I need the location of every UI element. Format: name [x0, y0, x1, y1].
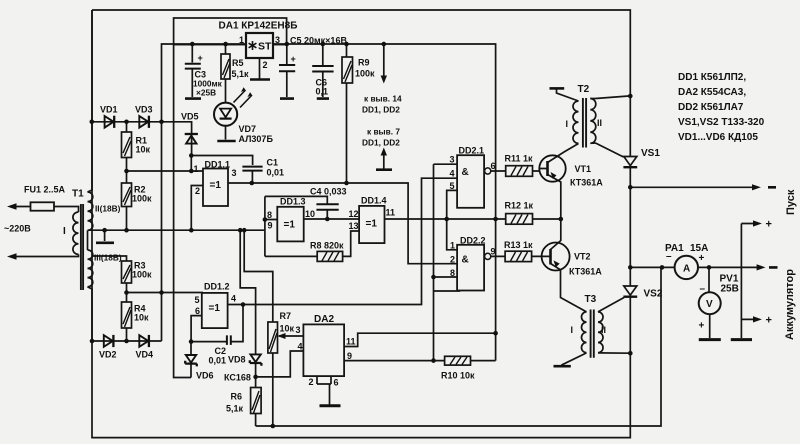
svg-text:DD1.4: DD1.4 — [361, 196, 387, 206]
svg-text:VD3: VD3 — [135, 105, 153, 115]
svg-text:DA2: DA2 — [314, 314, 334, 325]
svg-text:8: 8 — [267, 210, 272, 220]
svg-text:5,1к: 5,1к — [226, 404, 244, 414]
svg-text:VD1...VD6 КД105: VD1...VD6 КД105 — [678, 132, 758, 143]
svg-text:6: 6 — [334, 378, 339, 388]
svg-text:+: + — [766, 315, 772, 327]
svg-text:25В: 25В — [721, 284, 739, 295]
svg-text:VD7: VD7 — [239, 124, 257, 134]
svg-text:DD1.2: DD1.2 — [204, 282, 230, 292]
svg-text:C5 20мк×16B: C5 20мк×16B — [290, 36, 347, 46]
svg-text:10к: 10к — [280, 324, 295, 334]
svg-text:VD2: VD2 — [99, 350, 117, 360]
svg-text:DD2.2: DD2.2 — [460, 236, 486, 246]
svg-text:10: 10 — [305, 209, 315, 219]
svg-text:DD1.3: DD1.3 — [280, 197, 306, 207]
svg-text:R12 1к: R12 1к — [505, 201, 534, 211]
svg-text:2: 2 — [309, 377, 314, 387]
svg-text:VT2: VT2 — [574, 252, 591, 262]
svg-text:VD8: VD8 — [228, 355, 246, 365]
svg-text:C2: C2 — [215, 346, 227, 356]
svg-text:3: 3 — [296, 325, 301, 335]
svg-text:6: 6 — [195, 306, 200, 316]
svg-text:13: 13 — [349, 221, 359, 231]
svg-text:+: + — [699, 253, 705, 264]
svg-text:2: 2 — [263, 60, 268, 70]
svg-text:II: II — [601, 325, 606, 335]
svg-text:=1: =1 — [366, 219, 378, 230]
svg-text:4: 4 — [298, 342, 303, 352]
svg-text:к выв. 14: к выв. 14 — [364, 94, 402, 104]
svg-text:~220B: ~220B — [4, 224, 31, 234]
svg-text:4: 4 — [450, 169, 455, 179]
svg-text:3: 3 — [275, 35, 280, 45]
svg-text:R5: R5 — [232, 58, 244, 68]
svg-text:+: + — [291, 54, 296, 64]
svg-text:DD2.1: DD2.1 — [459, 146, 485, 156]
svg-text:4: 4 — [231, 294, 236, 304]
svg-text:10к: 10к — [136, 145, 151, 155]
svg-text:V: V — [706, 299, 713, 310]
svg-text:VD5: VD5 — [181, 112, 199, 122]
svg-text:FU1 2..5A: FU1 2..5A — [24, 185, 66, 195]
svg-text:100к: 100к — [132, 270, 152, 280]
svg-text:6: 6 — [491, 161, 496, 171]
svg-text:5: 5 — [450, 181, 455, 191]
svg-text:VD4: VD4 — [136, 350, 154, 360]
svg-text:VD6: VD6 — [196, 371, 214, 381]
svg-text:11: 11 — [386, 208, 396, 218]
svg-text:II(18B): II(18B) — [95, 204, 121, 214]
svg-text:×25B: ×25B — [196, 88, 216, 98]
svg-text:R6: R6 — [231, 392, 243, 402]
svg-text:12: 12 — [349, 209, 359, 219]
svg-text:5,1к: 5,1к — [232, 69, 250, 79]
svg-text:–: – — [700, 284, 706, 295]
svg-text:VS1,VS2 Т133-320: VS1,VS2 Т133-320 — [678, 117, 765, 128]
svg-text:Аккумулятор: Аккумулятор — [784, 269, 796, 340]
svg-text:9: 9 — [347, 351, 352, 361]
svg-text:I: I — [566, 119, 569, 129]
svg-text:DD2 К561ЛА7: DD2 К561ЛА7 — [678, 102, 744, 113]
svg-text:I: I — [63, 226, 66, 237]
svg-text:II: II — [597, 118, 602, 128]
svg-text:КС168: КС168 — [224, 373, 251, 383]
svg-text:5: 5 — [195, 295, 200, 305]
svg-text:1: 1 — [450, 241, 455, 251]
svg-text:VD1: VD1 — [100, 105, 118, 115]
svg-text:DA2 К554СА3,: DA2 К554СА3, — [678, 87, 746, 98]
svg-text:+: + — [699, 321, 705, 332]
svg-text:1: 1 — [239, 35, 244, 45]
svg-text:VS2: VS2 — [644, 289, 663, 300]
svg-text:КТ361А: КТ361А — [570, 178, 603, 188]
svg-text:C1: C1 — [267, 158, 279, 168]
svg-text:DD1, DD2: DD1, DD2 — [362, 138, 400, 148]
svg-text:DD1.1: DD1.1 — [205, 160, 231, 170]
svg-text:C4 0,033: C4 0,033 — [310, 187, 347, 197]
svg-text:T2: T2 — [578, 84, 590, 95]
svg-text:8: 8 — [450, 268, 455, 278]
svg-text:2: 2 — [450, 255, 455, 265]
svg-text:R13 1к: R13 1к — [504, 240, 533, 250]
svg-text:1: 1 — [194, 164, 199, 174]
svg-text:10к: 10к — [134, 313, 149, 323]
svg-text:100к: 100к — [132, 194, 152, 204]
svg-text:T3: T3 — [585, 294, 597, 305]
svg-text:DD1, DD2: DD1, DD2 — [362, 105, 400, 115]
svg-text:R7: R7 — [280, 311, 292, 321]
svg-text:III(18B): III(18B) — [94, 253, 122, 263]
svg-text:АЛ307Б: АЛ307Б — [239, 134, 274, 144]
svg-text:I: I — [571, 325, 574, 335]
svg-text:–: – — [666, 251, 672, 262]
svg-text:R8 820к: R8 820к — [310, 241, 344, 251]
svg-text:9: 9 — [491, 247, 496, 257]
svg-text:КТ361А: КТ361А — [569, 267, 602, 277]
svg-text:11: 11 — [346, 337, 356, 347]
svg-text:Пуск: Пуск — [785, 189, 797, 215]
svg-text:100к: 100к — [355, 69, 375, 79]
svg-text:0,01: 0,01 — [209, 356, 227, 366]
svg-text:R9: R9 — [358, 58, 370, 68]
svg-text:+: + — [198, 53, 203, 63]
svg-text:3: 3 — [450, 155, 455, 165]
svg-text:ST: ST — [258, 41, 272, 53]
svg-text:&: & — [462, 255, 469, 266]
svg-text:0,01: 0,01 — [267, 168, 285, 178]
svg-text:R11 1к: R11 1к — [505, 154, 534, 164]
svg-text:9: 9 — [268, 221, 273, 231]
svg-text:к выв. 7: к выв. 7 — [367, 127, 400, 137]
svg-text:=1: =1 — [209, 303, 221, 314]
svg-text:&: & — [462, 167, 469, 178]
svg-text:3: 3 — [232, 168, 237, 178]
svg-text:=1: =1 — [210, 180, 222, 191]
svg-text:VT1: VT1 — [575, 164, 592, 174]
svg-text:=1: =1 — [284, 220, 296, 231]
svg-text:R10 10к: R10 10к — [441, 371, 475, 381]
svg-text:2: 2 — [195, 186, 200, 196]
svg-text:+: + — [766, 219, 772, 231]
svg-text:0,1: 0,1 — [316, 87, 329, 97]
svg-text:DA1 КР142ЕН8Б: DA1 КР142ЕН8Б — [219, 21, 298, 32]
svg-text:А: А — [683, 264, 690, 275]
svg-text:DD1 К561ЛП2,: DD1 К561ЛП2, — [678, 72, 746, 83]
svg-text:T1: T1 — [72, 189, 84, 200]
svg-text:VS1: VS1 — [641, 148, 660, 159]
